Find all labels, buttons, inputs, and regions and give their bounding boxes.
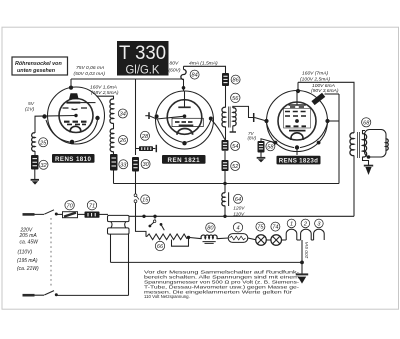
svg-text:(60V): (60V) <box>169 68 181 74</box>
note box "Roehrensockel von unten gesehen" <box>12 57 68 75</box>
tube V1 electrode dashes row 3 <box>67 123 86 125</box>
switch contact dot pole 1 <box>55 213 58 216</box>
anode top cap diagonal clip <box>311 93 325 105</box>
output transformer secondary coil <box>363 134 367 157</box>
tube V2 grid stub <box>145 115 149 117</box>
circled ref 80 <box>206 223 215 232</box>
wire top cap clip to right vertical <box>325 93 340 95</box>
tube V1 bottom pin dot <box>70 140 75 145</box>
selector blade right <box>161 225 164 230</box>
circled ref 75 <box>256 222 265 231</box>
tube V3 inner envelope circle <box>278 102 316 140</box>
mains pin pole 2 <box>23 294 35 297</box>
tube V3 socket wire arc right <box>300 123 328 148</box>
grid resistor 28 horizontal <box>139 146 153 151</box>
tube V1 socket wire arc left <box>46 120 70 142</box>
wire 75V node horizontal <box>71 78 184 80</box>
tube V1 anode side line <box>80 102 95 104</box>
svg-text:(100V 2,5mA): (100V 2,5mA) <box>300 77 331 83</box>
tube V1 center pin dot <box>74 114 77 117</box>
circled ref 1 <box>287 219 296 228</box>
junction dot bus A x225 <box>223 182 226 185</box>
svg-text:(110V): (110V) <box>18 250 33 256</box>
speaker frame <box>365 130 387 158</box>
break contact 15 upper circle <box>134 194 137 197</box>
circled ref 25 <box>39 138 48 147</box>
svg-text:REN 1821: REN 1821 <box>168 157 201 164</box>
svg-text:160V (7mA): 160V (7mA) <box>302 71 328 77</box>
svg-text:66: 66 <box>157 244 164 250</box>
svg-text:33: 33 <box>120 162 127 168</box>
tube V3 grid dashes row 3 <box>285 115 306 117</box>
svg-text:RENS 1810: RENS 1810 <box>55 156 91 163</box>
tube V2 grid dashes <box>175 121 193 123</box>
wire coil 34 to coil 26 <box>113 123 115 129</box>
dial lamp 75 <box>256 235 267 246</box>
tube V3 bottom pin dot <box>295 145 299 149</box>
svg-text:80V: 80V <box>170 61 179 67</box>
wire fuse to resistor 71 <box>78 213 85 215</box>
svg-text:(18V 2,5mA): (18V 2,5mA) <box>91 90 119 96</box>
wire lamp 74 to terminal strip <box>282 239 287 241</box>
svg-text:Röhrensockel von: Röhrensockel von <box>15 61 62 67</box>
wire transformer 56 secondary bottom stub <box>232 126 234 132</box>
tube V1 socket wire arc right <box>75 120 98 142</box>
svg-text:80: 80 <box>207 226 214 232</box>
circled ref 68 <box>362 118 371 127</box>
wire staple1-staple2 <box>297 239 301 241</box>
svg-text:120V: 120V <box>233 206 245 212</box>
svg-text:32: 32 <box>40 163 47 169</box>
wire anode rail to output transformer <box>298 82 354 133</box>
wire to ground under meter point <box>301 262 303 274</box>
wire secondary bottom to ground <box>363 157 369 166</box>
circled ref 86 <box>231 75 240 84</box>
SECTION: bottom note paragraph <box>144 269 300 299</box>
wire transformer 56 secondary top to tube V3 grid <box>233 106 254 117</box>
circled ref 71 <box>87 201 96 210</box>
terminal staple 2 <box>301 229 312 240</box>
svg-text:70: 70 <box>66 203 73 209</box>
label box RENS 1823d <box>277 156 321 165</box>
wire resistor 52 to bus A <box>224 171 226 184</box>
svg-text:4: 4 <box>236 225 239 231</box>
svg-text:(195 mA): (195 mA) <box>17 258 38 264</box>
circled ref 32 <box>39 160 48 169</box>
wire V3 lower-left pin to resistor 58 <box>261 139 275 143</box>
circled ref 3 <box>315 219 324 228</box>
svg-text:4mA (1,5mA): 4mA (1,5mA) <box>189 61 218 67</box>
wire secondary top to speaker <box>363 131 366 135</box>
wire coil 26 to resistor 33 <box>113 152 115 155</box>
wire lamp 75 to lamp 74 <box>266 239 271 241</box>
circled ref 56 <box>231 93 240 102</box>
svg-text:100 mA: 100 mA <box>304 242 310 259</box>
bottom bus C <box>111 261 303 263</box>
wire left pin to coil 25 <box>34 116 36 133</box>
svg-text:28: 28 <box>141 134 149 140</box>
wire choke 84 top to 80V rail <box>183 66 185 69</box>
coil 64 <box>222 193 225 206</box>
tube V2 socket wire arc right <box>187 121 211 143</box>
wire transformer 56 primary bottom to resistor 54 <box>225 127 227 140</box>
tube V1 top cap square <box>69 93 79 99</box>
circled ref 26 <box>119 136 128 145</box>
tube V2 grid line <box>149 116 185 119</box>
svg-text:(ca. 21W): (ca. 21W) <box>17 266 39 272</box>
resistor 30 <box>132 157 139 172</box>
coil 64 feed from bus A <box>224 184 226 194</box>
circled ref 64 <box>234 194 243 203</box>
resistor 54 <box>222 140 229 151</box>
resistor 66 tap bracket <box>172 238 189 247</box>
svg-text:T 330: T 330 <box>119 43 166 64</box>
tube V2 heater arch <box>177 129 193 135</box>
junction dot on V2 top riser <box>182 86 186 90</box>
tube V3 outer socket circle <box>267 91 328 152</box>
circled ref 2 <box>301 219 310 228</box>
wire grid vertical from 75V node <box>135 79 137 155</box>
output transformer primary coil <box>350 133 354 156</box>
switch coupling dashed line <box>50 218 52 288</box>
tube V3 left pin dot <box>264 119 268 123</box>
grid T-bar terminal <box>155 145 157 152</box>
ground at meter point <box>296 274 308 283</box>
wire V2 top riser from 80V node <box>183 79 185 91</box>
svg-text:(90V 3,6mA): (90V 3,6mA) <box>311 88 339 94</box>
svg-text:160V 1,6mA: 160V 1,6mA <box>90 85 117 91</box>
tube V3 cathode bar <box>289 130 306 132</box>
svg-text:58: 58 <box>267 144 274 150</box>
svg-text:86: 86 <box>232 78 239 84</box>
label box REN 1821 <box>162 155 206 164</box>
dropper bobbin bottom flange <box>108 228 130 234</box>
circled ref 74 <box>271 222 280 231</box>
svg-text:84: 84 <box>191 73 197 79</box>
bus A chassis line <box>114 183 340 185</box>
junction dot coil64 bus B <box>223 215 226 218</box>
wire 66 to coil 80 <box>189 237 202 238</box>
tube V3 lower-left pin dot <box>274 141 278 145</box>
terminal staple 1 <box>286 229 297 240</box>
resistor 86 <box>222 73 229 86</box>
circled ref 54 <box>231 142 240 151</box>
tube V3 electrode box outline <box>284 109 311 129</box>
tube V3 anode stem <box>296 93 298 105</box>
tube V1 top cap pin dot <box>69 86 73 90</box>
wire primary bottom to bus B <box>353 155 355 216</box>
wire below break 15 through bus B to resistor 66 <box>136 203 147 237</box>
wire bobbin right leg down <box>128 234 130 295</box>
tube V1 grid dashes row 1 <box>63 108 88 110</box>
choke 84 S-coil <box>181 70 186 80</box>
coil 26 <box>110 129 113 152</box>
tube V1 outer socket circle <box>48 87 105 144</box>
wire resistor 86 to transformer 56 <box>225 86 227 108</box>
circled ref 28 <box>141 131 150 140</box>
tube V2 right pin dot <box>209 117 213 121</box>
title box T 330 Gl/G.K <box>117 41 169 77</box>
mains pin pole 1 <box>23 213 35 216</box>
tube V2 anode stem <box>184 92 186 108</box>
bus B mains line <box>129 215 354 217</box>
tube V3 right pin dot <box>325 119 329 123</box>
wire 80V rail horizontal <box>184 66 226 73</box>
wire pole 2 to riser <box>56 294 128 296</box>
svg-text:64: 64 <box>235 197 241 203</box>
fuse 70 <box>63 212 78 218</box>
wire resistor 54 to 52 <box>224 151 226 160</box>
resistor 33 <box>110 154 118 171</box>
tube V3 bottom stub <box>296 150 298 156</box>
dropper bobbin top flange <box>108 215 130 221</box>
junction dot selector right <box>153 215 156 218</box>
coil 64 core line <box>228 192 230 206</box>
output transformer core lines <box>358 132 360 158</box>
resistor 71 <box>85 212 100 218</box>
circled ref 33 <box>119 160 128 169</box>
ground below resistor 58 <box>257 158 266 163</box>
selector blade dot left <box>149 225 152 228</box>
svg-text:30: 30 <box>142 162 149 168</box>
svg-text:(2V): (2V) <box>25 106 35 112</box>
wire coil 25 to resistor 32 <box>34 151 36 155</box>
svg-text:5V: 5V <box>28 101 35 107</box>
tube V1 right pin dot <box>95 116 99 120</box>
resistor 32 <box>31 155 39 170</box>
wire switch to fuse 70 <box>56 213 62 215</box>
tube V3 grid dashes row 2 <box>285 111 306 113</box>
circled ref 34 <box>118 109 127 118</box>
barretter 4 glass bulb <box>228 234 248 243</box>
wire tube V1 top cap riser <box>70 79 72 88</box>
speaker voice coil <box>386 139 389 150</box>
label 7V (8V) <box>248 131 257 141</box>
wire bobbin left leg down <box>110 234 112 262</box>
switch contact dot pole 2 <box>55 293 58 296</box>
secondary bottom bar <box>230 131 236 133</box>
wire grid resistor to T-bar <box>153 148 155 150</box>
circled ref 70 <box>65 201 74 210</box>
label box RENS 1810 <box>52 154 95 163</box>
transformer 56 core lines <box>228 107 230 128</box>
tube V2 anode bar <box>178 106 190 108</box>
resistor 66 zigzag <box>147 234 188 240</box>
circled ref 30 <box>141 160 150 169</box>
tube V1 anode top bar <box>66 102 80 104</box>
svg-text:26: 26 <box>119 138 127 144</box>
dial lamp 74 <box>271 235 282 246</box>
tube V3 grid dashes row 1 <box>290 106 304 108</box>
svg-text:(8V): (8V) <box>248 136 257 141</box>
circled ref 52 <box>231 162 240 171</box>
wire V3 right pin to vertical <box>328 120 340 122</box>
switch blade pole 1 <box>35 210 55 215</box>
tube V2 grid T-bar <box>148 112 150 119</box>
coil 80 core bars <box>203 242 216 244</box>
wire resistor 32 to ground <box>34 170 36 180</box>
transformer 56 secondary coil <box>233 108 236 126</box>
tube V2 center dot <box>183 114 187 118</box>
terminal staple 3 <box>314 229 325 240</box>
tube V1 inner envelope circle <box>59 99 93 133</box>
svg-text:1: 1 <box>290 222 293 228</box>
label 5V (2V) <box>25 101 35 112</box>
tube V3 top cap dot <box>296 89 300 93</box>
wire barretter to lamp 75 <box>248 238 256 240</box>
selector contact circle <box>153 220 156 223</box>
circled ref 15 <box>141 195 150 204</box>
wire meter drop x302 <box>301 240 303 262</box>
svg-text:71: 71 <box>89 203 95 209</box>
tube V2 bottom pin dot <box>182 141 186 145</box>
coil 34 <box>110 99 114 123</box>
svg-text:110 Volt Netzspannung.: 110 Volt Netzspannung. <box>144 294 190 299</box>
wire coil 80 to barretter 4 <box>217 237 229 240</box>
break contact 15 lower circle <box>134 200 137 203</box>
transformer 56 primary coil <box>222 107 226 127</box>
grid RC branch wire <box>136 148 140 150</box>
tube V1 grid line to left pin <box>35 115 77 118</box>
wire T-bar to V3 left pin <box>255 118 267 122</box>
wire staple2-staple3 <box>311 239 313 241</box>
ground below speaker <box>364 166 373 175</box>
resistor 58 <box>258 141 265 153</box>
wire resistor 71 to dropper bobbin <box>100 213 109 215</box>
coil 25 <box>32 133 35 151</box>
coil 80 <box>201 235 217 239</box>
wire tube V1 to coil 34 <box>97 96 114 99</box>
svg-text:52: 52 <box>232 164 239 170</box>
barretter 4 filament zigzag <box>230 236 246 240</box>
wire resistor 33 to bus A corner <box>113 171 115 184</box>
svg-text:75: 75 <box>257 225 264 231</box>
wire V3 top riser <box>297 82 299 91</box>
circled ref 84 <box>190 70 199 79</box>
wire coil 64 to bus B <box>224 206 226 217</box>
svg-text:54: 54 <box>232 144 238 150</box>
tube V3 anode bar <box>289 104 306 106</box>
tube V2 left pin dot <box>155 114 159 118</box>
tube V2 socket wire arc left <box>158 120 183 143</box>
speaker bottom dot <box>367 155 371 159</box>
selector blade left <box>150 222 154 225</box>
junction dot resistor 66 right <box>187 236 190 239</box>
svg-text:205 mA: 205 mA <box>19 233 38 239</box>
tube V2 electrode box outline <box>172 118 203 126</box>
wire right vertical x339 (screen feed) <box>338 94 340 184</box>
selector blade dot right <box>160 223 163 226</box>
wire resistor 30 to bus A and down <box>135 172 137 195</box>
tube V2 outer socket circle <box>156 91 214 149</box>
svg-text:15: 15 <box>142 198 149 204</box>
grid T-bar of V3 feed <box>253 113 255 122</box>
svg-text:74: 74 <box>272 225 278 231</box>
tube V3 electrode dashes row 4 <box>286 125 307 127</box>
switch blade pole 2 <box>35 291 55 296</box>
circled ref 4 <box>233 223 242 232</box>
svg-text:(50V 0,03 mA): (50V 0,03 mA) <box>74 71 106 77</box>
svg-text:RENS 1823d: RENS 1823d <box>279 158 318 165</box>
junction dot bus C <box>300 261 304 265</box>
tube V2 inner envelope circle <box>167 100 202 135</box>
circled ref 66 <box>155 241 164 250</box>
svg-text:ca. 45W: ca. 45W <box>20 240 40 246</box>
tube V1 left pin dot <box>42 114 46 118</box>
break 15 tick <box>137 196 140 199</box>
svg-text:34: 34 <box>120 112 126 118</box>
svg-text:Gl/G.K: Gl/G.K <box>126 65 160 77</box>
ground below resistor 32 <box>31 180 39 185</box>
svg-text:75V 0,06 mA: 75V 0,06 mA <box>76 65 104 71</box>
circled ref 58 <box>266 142 275 151</box>
wire resistor 58 to ground <box>260 153 262 158</box>
tube V3 lower-right pin dot <box>317 141 321 145</box>
tube V3 socket wire arc left <box>267 123 295 148</box>
wire V2 right pin to resistor 54 <box>211 119 225 140</box>
tube V1 cathode arch <box>70 126 80 132</box>
tube V3 heater arch <box>291 133 303 140</box>
dropper bobbin waist <box>111 222 126 228</box>
svg-text:unten gesehen: unten gesehen <box>17 68 56 74</box>
svg-text:25: 25 <box>39 140 47 146</box>
resistor 52 <box>222 160 229 171</box>
tube V2 cathode bar <box>179 124 194 126</box>
tube V3 center dot <box>295 119 299 123</box>
tube V1 electrode dashes row 2 <box>64 121 87 123</box>
selector stub <box>154 216 156 220</box>
svg-text:56: 56 <box>232 96 239 102</box>
svg-text:68: 68 <box>363 120 370 126</box>
junction dot selector left <box>142 215 145 218</box>
